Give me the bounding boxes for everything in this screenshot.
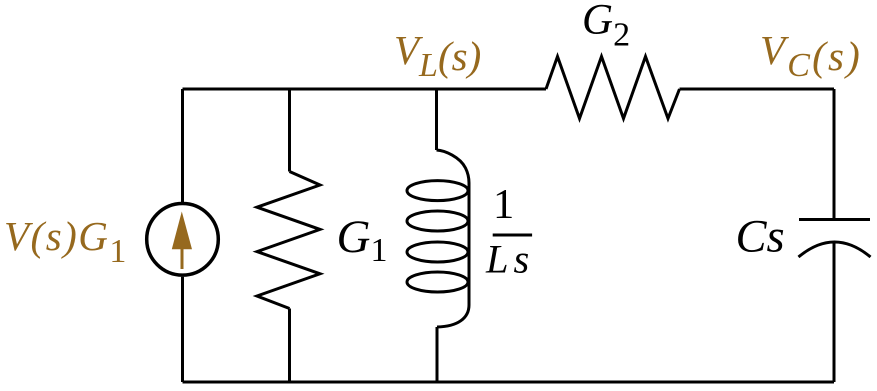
- svg-text:VC(s): VC(s): [760, 27, 862, 84]
- resistor G1: [257, 172, 320, 309]
- svg-text:G2: G2: [582, 0, 630, 54]
- svg-text:1: 1: [493, 181, 514, 228]
- wire G1 branch bottom: [288, 309, 291, 383]
- svg-text:G1: G1: [337, 211, 388, 269]
- label 1/Ls fraction bar: [493, 234, 532, 237]
- wire bottom horizontal (ground rail): [183, 381, 835, 384]
- svg-text:VL(s): VL(s): [394, 27, 481, 84]
- wire top-left horizontal (node VL rail): [183, 88, 547, 91]
- wire right vertical below capacitor: [833, 242, 836, 383]
- svg-text:Ls: Ls: [485, 237, 534, 282]
- wire inductor branch bottom: [436, 327, 439, 382]
- wire top-right horizontal (node VC rail): [680, 88, 835, 91]
- wire left vertical below source: [181, 277, 184, 382]
- current source arrow: [172, 212, 192, 270]
- inductor 1/Ls: [407, 150, 469, 327]
- wire inductor branch top: [435, 89, 438, 150]
- resistor G2: [546, 57, 680, 119]
- wire G1 branch top: [288, 89, 291, 172]
- svg-text:Cs: Cs: [736, 212, 785, 263]
- svg-text:V(s)G1: V(s)G1: [4, 213, 128, 270]
- current source V(s)G1: [147, 204, 219, 276]
- wire right vertical above capacitor: [833, 89, 836, 220]
- wire left vertical above source: [181, 89, 184, 202]
- capacitor Cs: [799, 220, 871, 258]
